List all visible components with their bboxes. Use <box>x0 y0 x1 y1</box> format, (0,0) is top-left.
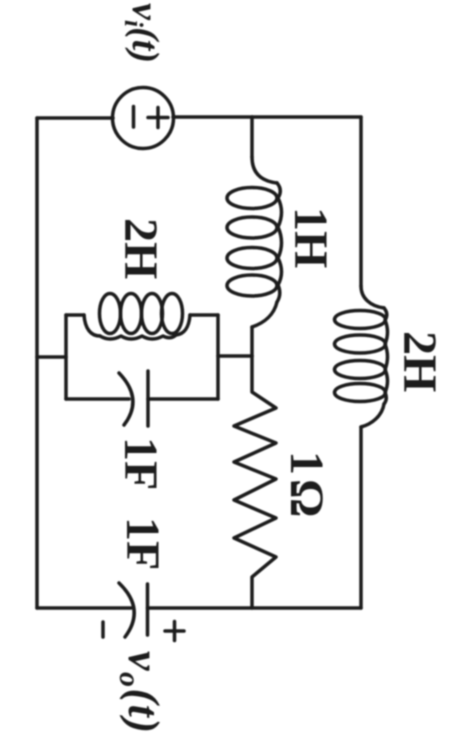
wire: left vertical <box>35 118 39 608</box>
inductor L1 2H horizontal <box>66 294 218 340</box>
label: 2H right <box>393 331 446 392</box>
wire: top right segment <box>252 115 361 119</box>
wire: right vertical top <box>359 117 363 286</box>
capacitor C2 1F straight plate <box>146 584 150 635</box>
label: 1H <box>284 207 337 268</box>
svg-text:1 Ω: 1 Ω <box>280 451 333 517</box>
label: minus inside source <box>132 107 136 128</box>
label: 1 ohm <box>280 451 333 517</box>
wire: top middle segment <box>173 115 252 119</box>
voltage source U1 vi(t) <box>113 88 174 149</box>
svg-text:2H: 2H <box>114 218 167 279</box>
label: 1F for C1 <box>114 437 167 490</box>
label: 1F for C2 <box>116 517 169 570</box>
label: plus inside source <box>148 108 168 128</box>
wire: bottom right segment <box>148 606 362 610</box>
svg-text:vo(t): vo(t) <box>113 651 168 735</box>
svg-text:1H: 1H <box>284 207 337 268</box>
wire: box right edge <box>216 315 220 399</box>
capacitor C1 1F straight plate <box>146 371 150 426</box>
wire: 1H top lead <box>250 117 254 157</box>
label: 2H left <box>114 218 167 279</box>
wire: bottom left segment <box>37 606 131 610</box>
svg-text:1F: 1F <box>114 437 167 490</box>
svg-text:2H: 2H <box>393 331 446 392</box>
label: plus for C2 <box>165 622 184 641</box>
label: minus for C2 <box>101 622 105 637</box>
wire: 1H bottom lead to node A <box>250 327 254 356</box>
resistor R1 1ohm <box>234 356 276 608</box>
svg-text:1F: 1F <box>116 517 169 570</box>
svg-text:vi(t): vi(t) <box>119 3 166 63</box>
wire: right vertical bottom <box>359 427 363 608</box>
wire: top left segment <box>37 116 113 120</box>
wire: box bottom left segment <box>66 397 129 401</box>
label: vo(t) <box>113 651 168 735</box>
wire: box left edge <box>64 315 68 399</box>
wire: left stub to box <box>37 355 66 359</box>
capacitor C1 1F curved plate <box>119 373 133 425</box>
inductor L2 1H <box>227 157 282 327</box>
capacitor C2 1F curved plate <box>119 583 134 637</box>
label: vi(t) <box>119 3 166 63</box>
wire: node A horizontal to box <box>218 354 252 358</box>
inductor L3 2H right <box>335 286 388 427</box>
wire: box bottom right segment <box>148 397 218 401</box>
